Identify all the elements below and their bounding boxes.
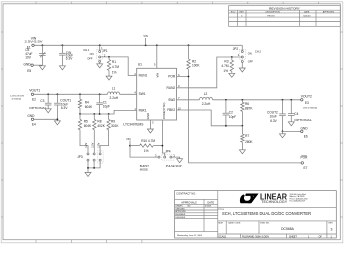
svg-text:PULSE SKIP: PULSE SKIP xyxy=(166,164,182,168)
svg-text:604K: 604K xyxy=(85,105,93,109)
label VOUT1 voltages xyxy=(10,96,25,101)
svg-text:1.8V: 1.8V xyxy=(98,142,101,147)
svg-text:JP4: JP4 xyxy=(165,149,171,153)
svg-text:ECO: ECO xyxy=(231,12,236,14)
resistor R8 xyxy=(93,114,106,153)
svg-text:DC568A: DC568A xyxy=(281,227,295,231)
svg-text:R1: R1 xyxy=(112,60,116,64)
svg-text:SHEET: SHEET xyxy=(289,235,298,238)
svg-text:APPROVED: APPROVED xyxy=(175,210,186,213)
terminal E7 POR xyxy=(301,156,309,170)
node VOUT1-rail junctions xyxy=(47,93,100,95)
svg-text:TECHNOLOGY: TECHNOLOGY xyxy=(261,200,288,204)
node R1 junction xyxy=(108,56,110,58)
resistor R2 xyxy=(187,45,201,76)
label CH.1 ON OFF xyxy=(83,48,93,61)
jumper JP3 xyxy=(77,151,103,163)
capacitor COUT2 xyxy=(267,100,286,132)
svg-text:E7: E7 xyxy=(304,166,308,170)
node FBK2 junctions xyxy=(225,125,243,127)
revision history table xyxy=(229,6,341,27)
svg-text:R7: R7 xyxy=(245,134,249,138)
wire VOUT2 rail xyxy=(213,99,301,101)
svg-text:E6: E6 xyxy=(304,135,308,139)
capacitor C3 xyxy=(29,94,51,110)
svg-text:POR: POR xyxy=(168,75,176,79)
inductor L2 xyxy=(200,92,213,106)
svg-text:280K: 280K xyxy=(245,140,253,144)
ground under C4 xyxy=(288,122,294,126)
svg-text:CH.2: CH.2 xyxy=(255,49,262,53)
svg-text:2.5V-5.5V: 2.5V-5.5V xyxy=(25,40,44,43)
svg-text:RUN1: RUN1 xyxy=(139,74,148,78)
capacitor C5 xyxy=(25,45,46,65)
jumper JP1 xyxy=(97,45,108,63)
pin 5 VIN of U1 xyxy=(154,45,160,77)
ground under R3 xyxy=(229,73,235,77)
capacitor COUT1 xyxy=(54,94,71,120)
svg-text:DWG NO.: DWG NO. xyxy=(260,222,270,224)
svg-text:Wednesday, June 11, 2003: Wednesday, June 11, 2003 xyxy=(177,235,203,237)
inductor L1 xyxy=(108,87,120,100)
resistor R5 xyxy=(78,114,92,153)
svg-text:SCALE: SCALE xyxy=(218,235,226,238)
svg-text:10V: 10V xyxy=(25,56,32,60)
node VIN-rail junctions xyxy=(42,44,190,46)
svg-text:402K: 402K xyxy=(97,124,105,128)
svg-text:REV: REV xyxy=(329,222,334,224)
svg-text:C4: C4 xyxy=(294,112,298,116)
resistor R6 xyxy=(241,100,254,126)
wire MODE pin to JP4 xyxy=(162,120,164,156)
jumper JP2 xyxy=(233,45,246,68)
svg-text:C2: C2 xyxy=(229,110,233,114)
svg-text:OPTIONAL: OPTIONAL xyxy=(29,106,47,110)
svg-text:10pF: 10pF xyxy=(103,105,110,109)
svg-text:L1: L1 xyxy=(112,87,116,91)
ground under CIN xyxy=(59,66,65,70)
svg-text:RUN2: RUN2 xyxy=(167,86,176,90)
wire E4 to COUT1 xyxy=(34,118,58,120)
svg-text:6/21/03: 6/21/03 xyxy=(303,15,311,17)
svg-text:FBK2: FBK2 xyxy=(167,108,175,112)
svg-text:DATE: DATE xyxy=(304,11,310,14)
svg-text:SW1: SW1 xyxy=(139,92,146,96)
wire FBK1 net xyxy=(80,110,137,114)
pin 7 SW2 of U1 xyxy=(168,96,180,102)
ground under C5 xyxy=(39,66,45,70)
resistor R3 xyxy=(221,57,233,73)
wire R10 left to JP4 pin3 xyxy=(129,145,158,157)
label PULSE SKIP xyxy=(166,164,182,168)
svg-text:APPROVED: APPROVED xyxy=(323,11,335,14)
svg-text:C3: C3 xyxy=(40,99,44,103)
svg-text:604K: 604K xyxy=(84,124,92,128)
svg-text:DESIGNER: DESIGNER xyxy=(175,217,186,219)
ground under COUT1 xyxy=(54,121,60,125)
svg-text:2.2uH: 2.2uH xyxy=(202,102,211,106)
wire VOUT1 rail xyxy=(34,93,137,95)
svg-text:REVISION HISTORY: REVISION HISTORY xyxy=(269,6,300,10)
node POR-R2 junction xyxy=(188,76,190,78)
svg-text:1%: 1% xyxy=(144,149,149,153)
svg-text:GND: GND xyxy=(146,113,150,119)
svg-text:4.7M: 4.7M xyxy=(112,65,119,69)
svg-text:OF: OF xyxy=(319,235,323,238)
svg-text:1.5V: 1.5V xyxy=(91,142,94,147)
svg-text:1.8V @ 800mA: 1.8V @ 800mA xyxy=(303,106,318,109)
svg-text:CHECKED: CHECKED xyxy=(175,208,185,210)
title block xyxy=(175,191,337,239)
svg-text:887K: 887K xyxy=(245,107,253,111)
pin 4 SW1 of U1 xyxy=(134,91,145,97)
pin 2 RUN1 of U1 xyxy=(134,72,147,78)
svg-text:VIN: VIN xyxy=(156,73,160,78)
svg-text:SW2: SW2 xyxy=(168,98,175,102)
svg-text:6.3V: 6.3V xyxy=(270,119,277,123)
capacitor C1 xyxy=(96,94,110,114)
svg-text:1%: 1% xyxy=(112,71,117,75)
ground under JP2 xyxy=(239,68,245,72)
ground under R1 xyxy=(106,76,112,80)
svg-text:E2: E2 xyxy=(32,98,36,102)
svg-text:APPROVALS: APPROVALS xyxy=(181,201,197,205)
svg-text:U1: U1 xyxy=(138,62,142,66)
ground under JP1 xyxy=(97,64,103,68)
ground under COUT2 xyxy=(280,131,286,137)
capacitor C4 xyxy=(288,100,312,122)
svg-text:ON: ON xyxy=(248,52,252,56)
pin 10 FBK2 of U1 xyxy=(167,106,181,112)
svg-text:E4: E4 xyxy=(32,122,36,126)
svg-text:R2: R2 xyxy=(192,59,196,63)
svg-text:1%: 1% xyxy=(223,69,228,73)
node JP3 ground junctions xyxy=(87,167,95,169)
svg-text:Fax: (408)434-0507: Fax: (408)434-0507 xyxy=(290,201,306,203)
pin 1 FBK1 of U1 xyxy=(134,107,146,113)
pin 9 RUN2 of U1 xyxy=(167,84,181,90)
resistor R7 xyxy=(241,126,254,150)
svg-text:1.2V: 1.2V xyxy=(85,142,88,147)
svg-text:VIN: VIN xyxy=(126,137,130,141)
svg-text:CONTRACT NO.: CONTRACT NO. xyxy=(176,191,196,195)
resistor R10 xyxy=(130,139,162,153)
resistor R1 xyxy=(107,57,119,76)
svg-text:VIN: VIN xyxy=(143,34,147,38)
svg-text:CH.1: CH.1 xyxy=(83,48,90,52)
ground at JP4 xyxy=(177,159,183,163)
capacitor C2 xyxy=(223,100,237,126)
ground under C3 xyxy=(45,109,51,113)
svg-text:SIZE: SIZE xyxy=(218,222,223,224)
svg-text:3: 3 xyxy=(331,227,333,231)
svg-text:PROTO: PROTO xyxy=(267,15,275,17)
wire JP3 commons to ground xyxy=(88,161,100,172)
terminal E6 GND xyxy=(301,127,309,139)
svg-text:MODE(SYNC): MODE(SYNC) xyxy=(162,103,166,120)
svg-text:GND: GND xyxy=(27,114,35,118)
svg-text:DATE: DATE xyxy=(207,201,214,205)
logo Linear Technology xyxy=(240,193,308,205)
svg-text:100K: 100K xyxy=(192,64,200,68)
wire JP4 pin1 to ground xyxy=(172,157,180,159)
svg-text:L2: L2 xyxy=(204,92,208,96)
label 1.8V xyxy=(98,142,101,147)
svg-text:6/11/03: 6/11/03 xyxy=(205,206,211,208)
svg-text:R3: R3 xyxy=(224,59,228,63)
resistor R4 xyxy=(78,94,93,114)
svg-text:JP1: JP1 xyxy=(102,49,108,53)
node VOUT2-rail junctions xyxy=(225,99,292,101)
svg-text:JP2: JP2 xyxy=(233,47,239,51)
svg-text:ON: ON xyxy=(90,52,94,56)
svg-text:CAGE CODE: CAGE CODE xyxy=(228,221,241,224)
node R10-MODE junction xyxy=(162,145,164,147)
svg-text:10uF: 10uF xyxy=(270,115,277,119)
svg-text:DRAWN: DRAWN xyxy=(175,205,183,208)
svg-text:E5: E5 xyxy=(27,69,31,73)
wire SW2 to L2 xyxy=(177,99,200,101)
wire POR net xyxy=(177,77,302,163)
node COUT2 ground junction xyxy=(282,131,284,133)
svg-text:DESCRIPTION: DESCRIPTION xyxy=(266,12,281,14)
svg-text:FILENAME: 568A-3.DDN: FILENAME: 568A-3.DDN xyxy=(242,235,269,238)
svg-text:POR: POR xyxy=(301,156,309,160)
svg-text:ENGINEER: ENGINEER xyxy=(175,214,186,216)
wire FBK2 net xyxy=(177,110,243,126)
node VIN flag at R10 xyxy=(126,137,130,146)
svg-text:6.3V: 6.3V xyxy=(61,106,68,110)
wire E5 to C5 xyxy=(33,64,42,66)
svg-text:JP3: JP3 xyxy=(77,155,83,159)
wire COUT2 to E6 xyxy=(283,130,301,132)
svg-text:E3: E3 xyxy=(305,101,309,105)
terminal E4 GND xyxy=(27,114,36,126)
svg-text:R10 4.7M: R10 4.7M xyxy=(141,139,155,143)
terminal E5 GND xyxy=(24,63,34,73)
svg-text:OPTIONAL: OPTIONAL xyxy=(294,118,312,122)
node FBK1 junctions xyxy=(79,113,109,115)
terminal E1 VIN xyxy=(25,37,44,50)
capacitor CIN xyxy=(59,45,73,65)
svg-text:GND: GND xyxy=(301,127,309,131)
svg-text:@ 600mA: @ 600mA xyxy=(12,97,22,100)
svg-text:VOUT1: VOUT1 xyxy=(29,89,40,93)
svg-text:GND: GND xyxy=(24,63,32,67)
wire VIN rail xyxy=(34,44,242,46)
svg-text:6.3V: 6.3V xyxy=(66,56,73,60)
svg-text:10pF: 10pF xyxy=(229,115,236,119)
svg-text:301K: 301K xyxy=(111,124,119,128)
wire RUN2 net xyxy=(177,57,242,88)
svg-text:4.7M: 4.7M xyxy=(221,64,228,68)
terminal E3 VOUT2 xyxy=(301,94,318,109)
ground under JP3 xyxy=(85,172,91,176)
op-amp U1 LTC3407EMS body xyxy=(123,62,176,126)
jumper JP4 xyxy=(155,149,175,160)
svg-text:OFF: OFF xyxy=(87,56,93,60)
svg-text:2.2uH: 2.2uH xyxy=(110,96,119,100)
svg-text:SCH, LTC3407EMS DUAL DC/DC CON: SCH, LTC3407EMS DUAL DC/DC CONVERTER xyxy=(222,211,311,216)
terminal E2 VOUT1 xyxy=(29,89,40,102)
pin 8 MODE(SYNC) of U1 xyxy=(162,103,166,120)
ground under U1 GND pin xyxy=(147,129,153,133)
svg-text:FBK1: FBK1 xyxy=(139,109,147,113)
svg-text:BURST: BURST xyxy=(140,164,149,168)
ground under R7 xyxy=(239,150,245,154)
resistor R9 xyxy=(100,114,119,153)
label 1.2V xyxy=(85,142,88,147)
svg-text:VOUT2: VOUT2 xyxy=(301,94,312,98)
node COUT1 ground junction xyxy=(57,118,59,120)
label 1.5V xyxy=(91,142,94,147)
pin 3 GND of U1 xyxy=(146,113,154,129)
svg-text:OFF: OFF xyxy=(248,60,254,64)
svg-text:MODE: MODE xyxy=(140,168,148,172)
svg-text:LTC3407EMS: LTC3407EMS xyxy=(123,122,144,126)
label ON OFF CH.2 xyxy=(248,49,262,63)
label BURST MODE xyxy=(140,164,149,172)
wire JP1 pin2 to RUN1 xyxy=(101,57,137,76)
node R3 junction xyxy=(231,56,233,58)
svg-text:R6: R6 xyxy=(245,102,249,106)
pin 6 POR of U1 xyxy=(168,73,180,79)
svg-text:REV: REV xyxy=(240,12,245,14)
node VIN flag xyxy=(143,34,147,45)
